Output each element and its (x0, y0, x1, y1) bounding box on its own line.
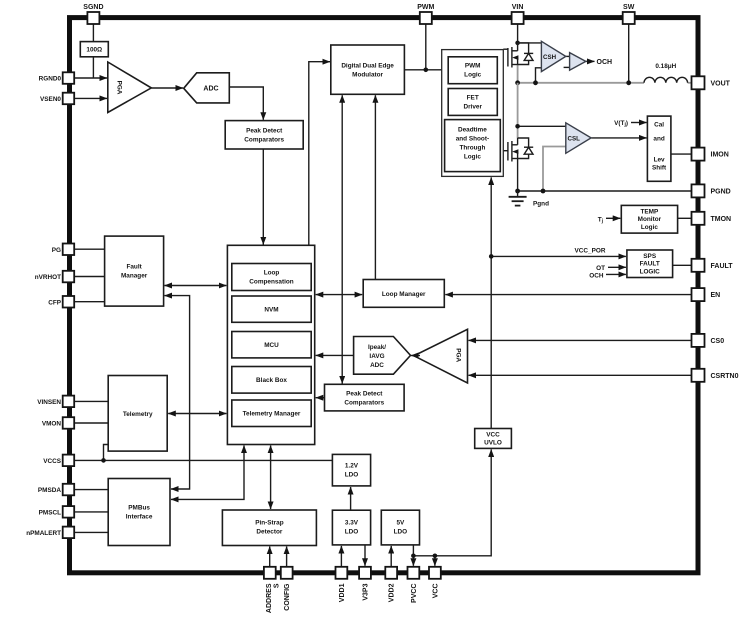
svg-text:CSRTN0: CSRTN0 (711, 373, 739, 380)
wire high-side source to SW rail (517, 65, 519, 83)
svg-text:Pgnd: Pgnd (533, 201, 549, 208)
pin VINSEN (37, 396, 74, 408)
pin PVCC (408, 567, 420, 603)
wire CSRTN0 pin to PGA U4 (469, 374, 692, 376)
junction PVCC rail (411, 554, 416, 559)
wire Peak Detect Comparators 2 to block (316, 397, 325, 399)
wire power ground rail to PGND pin (518, 190, 692, 192)
wire EN pin to Loop Manager (445, 294, 691, 296)
wire modulator output to PWM Logic (404, 69, 450, 71)
svg-text:OT: OT (596, 265, 605, 272)
wire drain node to CSH amplifier input (518, 42, 542, 44)
wire VSEN0 to PGA U1 input (75, 97, 108, 99)
pin PG (52, 244, 74, 256)
svg-text:VCCS: VCCS (43, 458, 61, 465)
wire PWM node to PWM pin (425, 24, 427, 70)
pin FAULT (692, 259, 734, 272)
svg-text:Logic: Logic (464, 72, 481, 79)
block Digital Dual Edge Modulator (331, 45, 405, 94)
block MCU (232, 332, 311, 358)
wire low-side source to power ground rail (517, 158, 519, 191)
wire VCCS to 1.2V LDO (75, 459, 333, 461)
svg-text:PVCC: PVCC (411, 584, 418, 603)
inductor 0.18uH (644, 77, 688, 82)
wire inductor to VOUT pin (688, 82, 692, 84)
block Telemetry (108, 376, 167, 452)
wire VIN pin to high-side FET drain (517, 24, 519, 43)
wire OCH comparator inverting stub (564, 66, 570, 68)
svg-text:MCU: MCU (264, 342, 279, 349)
wire Fault Manager to compensation block bidirectional (165, 285, 227, 287)
svg-text:VOUT: VOUT (711, 80, 731, 87)
junction VCC_POR tap (489, 254, 494, 259)
wire Tj to TEMP Monitor Logic (606, 217, 620, 219)
wire 3.3V LDO to 1.2V LDO (350, 487, 352, 510)
junction SW pin node (626, 80, 631, 85)
svg-text:PMBus: PMBus (128, 505, 150, 512)
svg-text:nPMALERT: nPMALERT (26, 530, 61, 537)
pin PWM (417, 4, 434, 24)
svg-text:CSH: CSH (543, 54, 557, 61)
op-amp PGA U4 (414, 329, 468, 383)
wire high-side gate drive (503, 48, 508, 50)
svg-text:Fault: Fault (126, 264, 142, 271)
svg-text:Comparators: Comparators (244, 136, 284, 143)
svg-text:CONFIG: CONFIG (284, 583, 291, 611)
svg-text:NVM: NVM (264, 307, 278, 314)
wire VINSEN to Telemetry (75, 400, 109, 402)
wire OCH to SPS FAULT LOGIC (606, 273, 626, 275)
pin VMON (42, 417, 74, 429)
svg-text:SGND: SGND (83, 4, 103, 11)
op-amp PGA U1 (108, 62, 152, 113)
svg-text:5V: 5V (396, 520, 405, 527)
svg-text:Loop Manager: Loop Manager (382, 291, 426, 298)
svg-text:ADC: ADC (370, 362, 384, 369)
junction PWM node (424, 68, 429, 73)
pin CFP (48, 296, 74, 308)
wire PMBus to Fault Manager (165, 296, 190, 489)
transistor Q1 high-side FET (508, 43, 519, 68)
svg-text:VIN: VIN (512, 4, 524, 11)
svg-text:0.18μH: 0.18μH (655, 63, 676, 70)
pin TMON (692, 212, 732, 225)
pin EN (692, 288, 721, 301)
wire CSL output to Cal and Lev Shift (591, 137, 647, 139)
pin VCC (429, 567, 441, 598)
block MCU subsystem container (227, 245, 314, 444)
svg-text:VDD1: VDD1 (339, 583, 346, 602)
pin nVRHOT (35, 271, 74, 283)
block Peak Detect Comparators 2 (325, 384, 405, 411)
wire CSH lower input to SW node (536, 68, 542, 83)
svg-text:Lev: Lev (654, 157, 665, 164)
svg-text:ADC: ADC (203, 86, 218, 93)
wire CSL lower input to ground rail (543, 147, 566, 192)
svg-text:VMON: VMON (42, 421, 62, 428)
wire PVCC rail to VCC UVLO (413, 449, 491, 555)
junction low-side drain node (515, 124, 520, 129)
wire ADDRESS pin to Pin-Strap Detector (269, 547, 271, 567)
wire nPMALERT to PMBus Interface (75, 531, 109, 533)
wire CSH output to OCH comparator (566, 55, 570, 57)
wire RGND0 to PGA U1 input (75, 77, 108, 79)
svg-text:Comparators: Comparators (344, 400, 384, 407)
block Fault Manager (105, 236, 164, 306)
wire VCC_POR to SPS FAULT LOGIC (491, 255, 626, 257)
svg-text:Logic: Logic (464, 154, 481, 161)
wire V(Tj) to Cal and Lev Shift (631, 122, 647, 124)
svg-text:Compensation: Compensation (249, 279, 293, 286)
svg-text:Through: Through (459, 145, 485, 152)
svg-text:Detector: Detector (256, 529, 282, 536)
ADC U3 Ipeak IAVG (354, 337, 411, 375)
svg-text:Pin-Strap: Pin-Strap (255, 520, 284, 527)
pin SGND (83, 4, 103, 24)
wire Pin-Strap Detector to block bidirectional (270, 446, 272, 510)
wire PGA U1 output to ADC U2 (151, 87, 183, 89)
svg-text:PMSDA: PMSDA (38, 487, 61, 494)
svg-text:Deadtime: Deadtime (458, 127, 487, 134)
junction ground at CSL return (541, 189, 546, 194)
svg-text:PGA: PGA (455, 348, 462, 362)
svg-text:Modulator: Modulator (352, 71, 383, 78)
wire CS0 pin to PGA U4 (469, 339, 692, 341)
wire PGA U4 output to Ipeak IAVG ADC (411, 355, 420, 357)
wire SGND pin to 100 ohm resistor (92, 24, 94, 42)
wire Telemetry to Telemetry Manager bidirectional (168, 413, 226, 415)
pin SW (623, 4, 635, 24)
svg-text:PWM: PWM (417, 4, 434, 11)
wire VCCS tap to Telemetry (104, 445, 109, 461)
pin VSEN0 (40, 93, 74, 105)
svg-text:LDO: LDO (345, 471, 359, 478)
pin CSRTN0 (692, 369, 739, 382)
pin VOUT (692, 76, 731, 89)
junction SW source node (515, 80, 520, 85)
svg-text:FAULT: FAULT (711, 263, 734, 270)
svg-text:RGND0: RGND0 (39, 76, 62, 83)
svg-text:Telemetry Manager: Telemetry Manager (243, 411, 301, 418)
block 3.3V LDO (332, 510, 370, 545)
wire PMSCL to PMBus Interface (75, 511, 109, 513)
resistor 100 ohm (80, 42, 108, 57)
pin nPMALERT (26, 527, 74, 539)
block Loop Compensation (232, 264, 311, 291)
svg-text:Monitor: Monitor (638, 216, 662, 223)
svg-text:LDO: LDO (394, 529, 408, 536)
wire Ipeak IAVG ADC output to MCU block (316, 354, 354, 356)
wire Cal and Lev Shift to IMON pin (671, 153, 692, 155)
wire 3.3V LDO to V3P3 pin (364, 545, 366, 566)
wire 5V LDO to PVCC rail (412, 545, 414, 556)
block Cal and Lev Shift (647, 116, 671, 181)
svg-text:EN: EN (711, 292, 721, 299)
op-amp CSH (541, 41, 565, 71)
svg-text:VSEN0: VSEN0 (40, 96, 61, 103)
svg-text:Manager: Manager (121, 273, 148, 280)
svg-text:IAVG: IAVG (369, 353, 384, 360)
svg-text:OCH: OCH (597, 59, 613, 66)
wire PMBus to Telemetry Manager block (171, 446, 244, 500)
comparator OCH driver (570, 53, 586, 71)
pin PGND (692, 184, 731, 197)
block TEMP Monitor Logic (621, 205, 677, 233)
block SPS FAULT LOGIC (627, 250, 673, 278)
block Peak Detect Comparators 1 (225, 121, 303, 149)
svg-text:3.3V: 3.3V (345, 520, 359, 527)
svg-text:nVRHOT: nVRHOT (35, 274, 61, 281)
svg-text:OCH: OCH (589, 272, 604, 279)
transistor Q2 low-side FET (508, 138, 519, 162)
svg-text:1.2V: 1.2V (345, 462, 359, 469)
wire rail to PVCC pin (412, 556, 414, 566)
wire PMSDA to PMBus Interface (75, 489, 109, 491)
pin CONFIG (281, 567, 293, 611)
block Black Box (232, 367, 311, 394)
pin VDD1 (336, 567, 348, 602)
svg-text:and: and (653, 136, 664, 143)
wire CFP to Fault Manager (75, 301, 105, 303)
svg-text:PGA: PGA (116, 81, 123, 95)
wire TEMP Monitor Logic to TMON pin (678, 217, 692, 219)
pin RGND0 (39, 72, 75, 84)
svg-text:Loop: Loop (264, 270, 280, 277)
wire VDD2 pin to 5V LDO (390, 546, 392, 567)
svg-text:IMON: IMON (711, 152, 729, 159)
svg-text:VINSEN: VINSEN (37, 399, 61, 406)
wire Peak Detect Comparators to Loop Compensation block (262, 149, 264, 245)
wire compensation block to Digital Dual Edge Modulator (309, 62, 330, 246)
svg-text:FET: FET (467, 94, 479, 101)
pin CS0 (692, 334, 725, 347)
wire SW rail down to low-side FET drain (517, 83, 519, 138)
wire OT to SPS FAULT LOGIC (608, 266, 626, 268)
svg-text:UVLO: UVLO (484, 440, 502, 447)
diode body diode D1 (518, 43, 534, 65)
pin VCCS (43, 455, 74, 467)
op-amp CSL (566, 123, 591, 154)
svg-text:Driver: Driver (463, 103, 482, 110)
wire rail to VCC pin (434, 556, 436, 566)
block Telemetry Manager (232, 400, 311, 427)
svg-text:LDO: LDO (345, 529, 359, 536)
svg-text:V(Tj): V(Tj) (614, 120, 628, 128)
wire Loop Manager to compensation block bidirectional (316, 294, 363, 296)
block PMBus Interface (108, 479, 170, 546)
svg-text:CSL: CSL (568, 136, 581, 143)
svg-text:TMON: TMON (711, 216, 732, 223)
pin ADDRESS (264, 567, 281, 613)
wire SPS FAULT LOGIC to FAULT pin (673, 264, 692, 266)
svg-text:Shift: Shift (652, 165, 667, 172)
block VCC UVLO (475, 429, 512, 449)
junction ground at low-side source (515, 189, 520, 194)
block FET Driver (448, 89, 497, 116)
svg-text:VCC: VCC (486, 432, 500, 439)
wire SW pin to SW rail (628, 24, 630, 83)
pin PMSDA (38, 484, 74, 496)
wire nVRHOT to Fault Manager (75, 276, 105, 278)
pin VDD2 (385, 567, 397, 602)
svg-text:PWM: PWM (465, 63, 481, 70)
svg-text:CFP: CFP (48, 299, 62, 306)
svg-text:CS0: CS0 (711, 338, 725, 345)
pin PMSCL (39, 506, 75, 517)
pin IMON (692, 148, 729, 161)
svg-text:Logic: Logic (641, 224, 658, 231)
svg-text:100Ω: 100Ω (86, 47, 102, 54)
svg-text:V3P3: V3P3 (362, 583, 369, 600)
wire modulator bottom to Loop Manager (374, 95, 376, 279)
chip outline border (70, 18, 699, 573)
wire low-side gate drive (503, 150, 508, 152)
wire VDD1 pin to 3.3V LDO (340, 546, 342, 567)
pin V3P3 (359, 567, 371, 601)
ground Pgnd symbol (509, 191, 527, 206)
wire CONFIG pin to Pin-Strap Detector (286, 547, 288, 567)
wire VMON to Telemetry (75, 422, 109, 424)
svg-text:VCC: VCC (432, 584, 439, 599)
wire PG to Fault Manager (75, 248, 105, 250)
block Loop Manager (363, 280, 444, 308)
svg-text:Tj: Tj (598, 216, 604, 224)
junction drain node (515, 41, 520, 46)
svg-text:PMSCL: PMSCL (39, 509, 61, 516)
svg-text:Interface: Interface (126, 514, 153, 521)
block PWM Logic (448, 57, 497, 84)
block 5V LDO (381, 510, 419, 545)
block driver container (442, 50, 504, 177)
svg-text:TEMP: TEMP (641, 208, 659, 215)
block Deadtime and Shoot-Through Logic (445, 120, 501, 172)
wire 100 ohm resistor to RGND0 node (92, 57, 94, 78)
svg-text:FAULT: FAULT (640, 261, 660, 268)
junction VCCS tap (101, 458, 106, 463)
pin VIN (512, 4, 524, 24)
svg-text:VDD2: VDD2 (389, 583, 396, 602)
block 1.2V LDO (332, 454, 370, 486)
svg-text:Peak Detect: Peak Detect (346, 391, 383, 398)
svg-text:Telemetry: Telemetry (123, 411, 153, 418)
wire VCC UVLO to deadtime logic (490, 177, 492, 428)
block NVM (232, 296, 311, 322)
svg-text:Cal: Cal (654, 122, 664, 129)
svg-text:SPS: SPS (643, 253, 657, 260)
junction CSH sense node (533, 80, 538, 85)
wire OCH comparator output label arrow (586, 60, 595, 62)
svg-text:and Shoot-: and Shoot- (456, 136, 489, 143)
svg-text:LOGIC: LOGIC (640, 268, 661, 275)
svg-text:Digital Dual Edge: Digital Dual Edge (341, 62, 394, 69)
svg-text:SW: SW (623, 4, 635, 11)
svg-text:Black Box: Black Box (256, 377, 287, 384)
junction VCC rail (433, 554, 438, 559)
block Pin-Strap Detector (222, 510, 316, 546)
wire SW rail to inductor (518, 82, 644, 84)
svg-text:PGND: PGND (711, 188, 731, 195)
diode body diode D2 (518, 138, 534, 159)
svg-text:Ipeak/: Ipeak/ (368, 344, 386, 351)
wire modulator bottom to Peak Detect Comparators 2 (341, 95, 343, 383)
svg-text:VCC_POR: VCC_POR (575, 248, 606, 255)
wire ADC U2 output to Peak Detect Comparators (229, 87, 263, 120)
ADC U2 (184, 73, 230, 103)
wire low-side drain node to CSL amplifier input (518, 125, 566, 127)
svg-text:Peak Detect: Peak Detect (246, 127, 283, 134)
svg-text:PG: PG (52, 247, 61, 254)
